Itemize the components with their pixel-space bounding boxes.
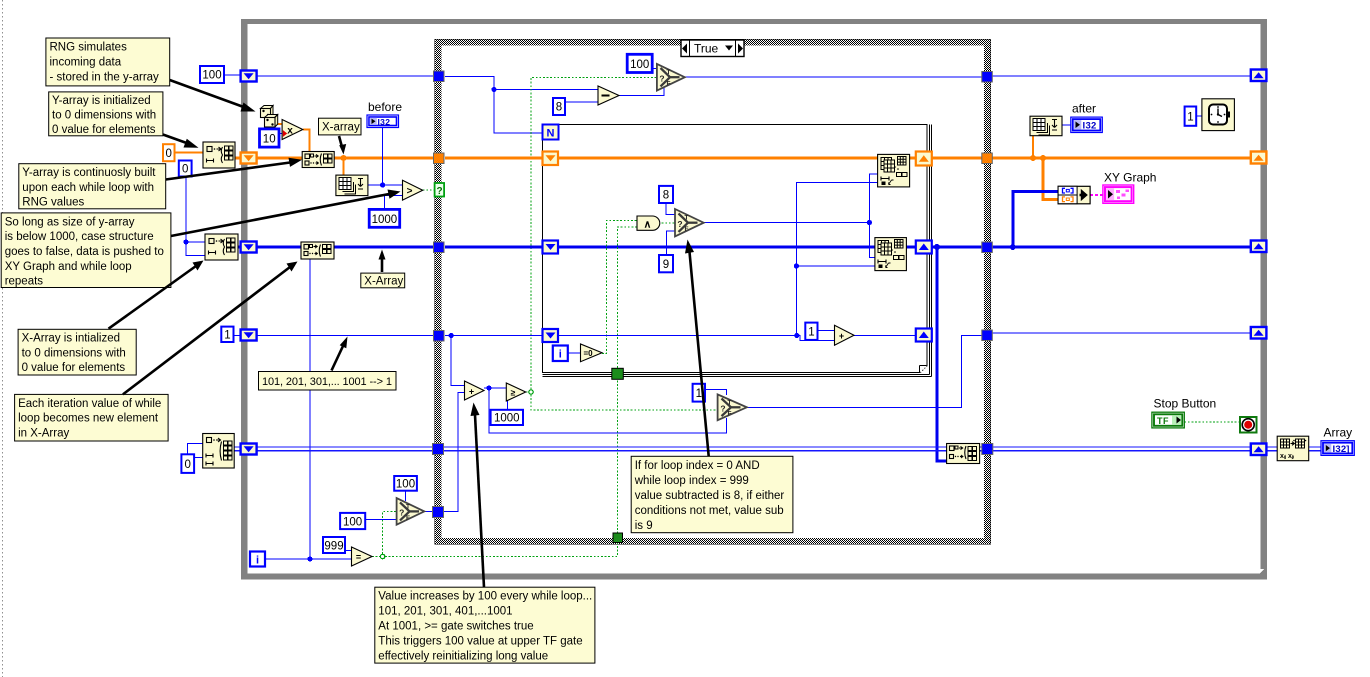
constant 1 (select3 true) (693, 384, 705, 402)
svg-text:is 9: is 9 (635, 520, 653, 532)
arrow from X-Array label up to wire (379, 250, 386, 273)
svg-text:X-Array is intialized: X-Array is intialized (22, 333, 120, 345)
arrow: RNG comment to dice (170, 80, 256, 112)
svg-text:is below 1000, case structure: is below 1000, case structure (5, 231, 154, 243)
wire: select1 output to case tunnel to right shift register (685, 76, 1251, 77)
case structure border (hatched) (435, 40, 991, 545)
node: transpose 2D array (1277, 436, 1309, 461)
svg-text:?: ? (399, 508, 404, 518)
wire: blue 0 to initialize array 2 inputs (183, 177, 205, 256)
wire: select3 output to case tunnel y=335 (747, 333, 1251, 407)
svg-text:upon each while loop with: upon each while loop with (22, 182, 154, 194)
svg-text:before: before (368, 100, 402, 114)
arrow: if-for-loop comment up to select 2 (685, 240, 709, 457)
node: increment add (1 + i) (835, 325, 855, 345)
wire: multiply output down into insert-into-array 1 (303, 130, 310, 152)
svg-text:9: 9 (663, 259, 669, 271)
node: equals (i = 999) (352, 547, 373, 566)
indicator: XY Graph with label (1103, 171, 1157, 204)
wire: orange y-array trunk (235, 136, 1251, 200)
wire: for-loop i to equal-zero to and-gate (green) (568, 221, 637, 354)
node: greater than (403, 180, 423, 200)
comment: So long as size of y-array (1, 213, 171, 288)
svg-text:effectively reinitializing lon: effectively reinitializing long value (378, 651, 548, 663)
for loop right tunnel orange (up arrow) (916, 152, 932, 166)
case right tunnel y=335 (982, 330, 993, 341)
wire: array size 2 to after indicator (1062, 124, 1071, 126)
wire: 8 to select2 true input (666, 203, 676, 215)
svg-text:?: ? (436, 186, 442, 197)
wire: select4 output through case tunnel up to add2 (424, 393, 464, 512)
svg-text:1: 1 (808, 327, 814, 339)
constant 1 (left) (221, 327, 233, 342)
svg-text:T: T (728, 399, 732, 406)
svg-text:X-array: X-array (322, 122, 360, 134)
wire: and output to select2 s input (662, 222, 676, 224)
screen boundary dotted line (2, 0, 4, 677)
case right tunnel orange y=158 (982, 153, 993, 164)
for loop left tunnel y=247 (down arrow) (543, 241, 559, 254)
node: random number dice (261, 106, 278, 128)
shift register left 4 (down arrow) (241, 330, 257, 341)
svg-text:XY Graph: XY Graph (1104, 171, 1156, 185)
wire: orange 0 to initialize array 1 (175, 152, 204, 154)
constant 0 (blue) (179, 161, 192, 177)
svg-text:to 0 dimensions with: to 0 dimensions with (52, 110, 156, 122)
svg-text:100: 100 (202, 70, 221, 82)
svg-text:1000: 1000 (372, 214, 398, 226)
svg-text:≥: ≥ (511, 388, 516, 398)
svg-text:0: 0 (182, 164, 188, 176)
wire: bundle output to XY Graph (pink) (1090, 194, 1103, 196)
wire: 10 to multiply with coercion dot (279, 133, 282, 135)
arrow from 101 label up to wire y=335 (332, 337, 348, 371)
wire: shift register to case tunnel y=76 (257, 75, 436, 77)
svg-text:I32: I32 (378, 117, 391, 127)
wire: 1 to select3 true input (705, 390, 726, 395)
node: select 1 (top, true case 100) (657, 64, 685, 91)
wire: 100 to select1 true input (652, 68, 657, 70)
svg-text:T: T (685, 215, 689, 222)
svg-text:repeats: repeats (5, 276, 44, 288)
node: array size 1 (336, 175, 368, 196)
arrow: so-long comment to greater-than gate (171, 190, 401, 237)
svg-text:=: = (356, 552, 361, 562)
svg-text:value subtracted is 8, if eith: value subtracted is 8, if either (635, 490, 785, 502)
svg-text:If for loop index = 0 AND: If for loop index = 0 AND (635, 460, 760, 472)
wire: greater-than output to case selector tunnel (green) (423, 189, 435, 191)
svg-text:Stop Button: Stop Button (1154, 397, 1217, 411)
node: select 3 (reset to 1) (718, 394, 747, 420)
constant 1 (increment) (805, 323, 817, 340)
svg-text:F: F (667, 81, 671, 88)
svg-text:0: 0 (184, 459, 190, 471)
svg-text:F: F (685, 226, 689, 233)
node: greater or equal (506, 383, 525, 401)
constant 1 (wait) (1185, 107, 1197, 126)
for loop bottom tunnel green (boolean) (612, 368, 624, 379)
shift register left 2 (orange down arrow) (241, 153, 257, 164)
svg-text:>: > (407, 186, 413, 197)
svg-text:TF: TF (1157, 416, 1169, 426)
node: insert into array 1 (302, 152, 334, 168)
wire: add2 output to gte and select3 false input (484, 385, 726, 433)
arrow: Y-array init comment to initialize array 1 (163, 135, 199, 148)
svg-text:True: True (694, 42, 719, 56)
wire: equals output green net to and-gate via tunnels and to select4 (372, 227, 637, 559)
indicator: after (I32) with label (1071, 102, 1103, 133)
while loop border (241, 19, 1267, 580)
svg-text:T: T (406, 503, 410, 510)
node: initialize array 3 (2D) (203, 434, 235, 469)
node: equal to zero (581, 344, 603, 362)
svg-text:101, 201, 301,... 1001 --> 1: 101, 201, 301,... 1001 --> 1 (262, 376, 392, 388)
svg-text:XY Graph and while loop: XY Graph and while loop (5, 261, 132, 273)
wire: 1000 to greater-than lower input (385, 195, 403, 209)
svg-text:Value increases by 100 every w: Value increases by 100 every while loop.… (378, 591, 592, 603)
wire: iteration tap net x=796 to delete nodes (794, 182, 878, 335)
shift register right 3 (up arrow) (1251, 241, 1267, 253)
svg-text:+: + (839, 331, 844, 341)
wire: 100 constant to left shift register (scalar blue) (224, 74, 241, 76)
svg-text:N: N (547, 128, 555, 140)
arrow: each-iteration comment to insert into array 2 (123, 262, 298, 395)
wire: subtract output to select1 false input (619, 88, 664, 96)
svg-text:0 value for elements: 0 value for elements (52, 124, 156, 136)
svg-text:So long as size of y-array: So long as size of y-array (5, 216, 135, 228)
svg-text:?: ? (677, 219, 682, 229)
case left tunnel orange y=158 (434, 153, 445, 164)
svg-text:∧: ∧ (644, 219, 652, 231)
svg-text:100: 100 (630, 59, 649, 71)
constant 100 (select4 false) (340, 513, 365, 529)
for loop count terminal N (543, 125, 559, 140)
node: select 2 (subtract amount 8/9) (675, 209, 704, 236)
comment: Y-array is initialized (49, 92, 163, 136)
wire: 8 to subtract lower input (565, 101, 599, 103)
wire: 9 to select2 false input (667, 231, 676, 255)
arrow: continuosly-built comment to insert into array 1 (166, 158, 302, 180)
svg-text:F: F (728, 411, 732, 418)
for loop right tunnel y=247 (up arrow) (916, 241, 932, 254)
node: and gate (637, 216, 660, 231)
node: insert into array 3 (2D build) (947, 444, 980, 464)
svg-text:?: ? (659, 74, 664, 84)
wire: 1 to wait function (1196, 115, 1202, 117)
case left tunnel select4 y=511 (433, 507, 444, 518)
while loop condition terminal (stop sign) (1240, 417, 1257, 433)
case right tunnel 2D y=449 (982, 444, 993, 455)
node: delete from array 2 (875, 238, 907, 271)
svg-text:Y-array is continuosly built: Y-array is continuosly built (22, 167, 156, 179)
shift register right 1 (up arrow) (1251, 70, 1267, 82)
svg-text:loop becomes new element: loop becomes new element (18, 413, 159, 425)
svg-text:100: 100 (343, 516, 362, 528)
indicator: before (I32) with label (367, 100, 402, 128)
wire: inside case top scalar net to N and subtract (445, 77, 599, 134)
wire: 2D array double line net (234, 447, 1321, 451)
svg-text:Y-array is initialized: Y-array is initialized (52, 95, 151, 107)
comment: Y-array is continuosly built (19, 164, 166, 209)
for loop right tunnel y=335 (up arrow) (916, 329, 932, 342)
svg-text:RNG simulates: RNG simulates (50, 42, 128, 54)
svg-text:RNG values: RNG values (22, 197, 84, 209)
wire: 999 to equals (345, 550, 352, 552)
constant 100 (select4 true) (394, 476, 417, 491)
for loop left tunnel y=335 (down arrow) (543, 329, 559, 342)
node: subtract (598, 86, 619, 105)
comment: Each iteration value of while (15, 394, 169, 441)
node: select 4 (reset 100) (397, 498, 425, 525)
case bottom tunnel green (boolean) (613, 533, 623, 543)
wire: x-array thick blue trunk y=247 (238, 192, 1251, 461)
shift register left 1 (down arrow) (241, 71, 257, 82)
constant 0 (orange DBL) (163, 144, 175, 161)
svg-text:0: 0 (165, 148, 171, 160)
indicator: Array (I32 2D) with label (1321, 426, 1354, 456)
label: X-Array (below trunk) (361, 273, 405, 288)
comment: X-Array is intialized (18, 329, 136, 375)
svg-text:T: T (667, 69, 671, 76)
shift register left 3 (down arrow) (241, 242, 257, 253)
shift register right 2 (orange up arrow) (1251, 152, 1267, 164)
node: array size 2 (1030, 116, 1062, 136)
case selector tunnel "?" (435, 183, 445, 197)
shift register left 5 (down arrow) (241, 444, 257, 455)
control: Stop Button (TF) with label (1152, 397, 1216, 428)
wire: 100 to select4 false input (365, 519, 396, 521)
svg-text:x: x (287, 126, 293, 137)
wire: 0 to initialize array 3 inputs (188, 444, 203, 458)
svg-text:in X-Array: in X-Array (18, 427, 69, 439)
svg-text:=0: =0 (583, 349, 593, 358)
constant 8 (select2 true) (659, 186, 673, 203)
svg-text:8: 8 (556, 102, 562, 114)
svg-text:Each iteration value of while: Each iteration value of while (18, 398, 161, 410)
constant 1000 (y size limit) (369, 209, 400, 227)
wire: array size 1 to greater-than, branch to before indicator (368, 128, 403, 188)
svg-text:X-Array: X-Array (364, 276, 403, 288)
svg-text:100: 100 (396, 479, 415, 491)
svg-text:while loop index = 999: while loop index = 999 (634, 475, 749, 487)
constant 100 (top left) (200, 66, 224, 83)
svg-text:I32: I32 (1083, 121, 1097, 132)
svg-text:?: ? (720, 404, 725, 414)
svg-text:8: 8 (663, 190, 669, 202)
wire: dice to multiply (orange scalar) (278, 123, 282, 125)
node: bundle cluster for XY graph (1058, 186, 1090, 204)
for loop border (543, 125, 932, 377)
case left tunnel y=247 (434, 242, 445, 253)
svg-text:10: 10 (263, 134, 276, 146)
comment: If for loop index (631, 456, 793, 532)
svg-text:i: i (256, 555, 259, 567)
svg-text:incoming data: incoming data (50, 57, 122, 69)
case selector label "True" (681, 40, 744, 57)
case left tunnel 2D y=449 (433, 444, 444, 455)
while loop iteration terminal i (250, 552, 265, 567)
arrow: X-Array init comment to initialize array 2 (109, 261, 204, 329)
svg-text:+: + (469, 386, 474, 396)
svg-text:1: 1 (1187, 112, 1193, 124)
for loop left tunnel orange (down arrow) (543, 152, 559, 166)
node: initialize array 1 (203, 142, 235, 168)
node: insert into array 2 (301, 242, 334, 259)
constant 999 (323, 537, 345, 553)
constant 8 (subtract) (553, 98, 565, 115)
node: multiply (282, 120, 303, 140)
svg-text:- stored in the y-array: - stored in the y-array (50, 72, 160, 84)
arrow from X-array label to orange wire (339, 136, 346, 155)
svg-text:xᵢⱼ xⱼᵢ: xᵢⱼ xⱼᵢ (1280, 453, 1294, 460)
constant 9 (select2 false) (659, 255, 673, 272)
svg-text:to 0 dimensions with: to 0 dimensions with (22, 347, 126, 359)
svg-text:This triggers 100 value at upp: This triggers 100 value at upper TF gate (378, 636, 582, 648)
constant 10 (260, 129, 280, 147)
wire: insert2 index input from i terminal (265, 260, 352, 562)
case left tunnel y=76 (linked blue square) (434, 71, 445, 82)
for loop iteration terminal i (553, 346, 568, 362)
constant 0 (2D init) (181, 454, 194, 473)
node: add 2 (long value + 1) (465, 381, 485, 400)
case right tunnel y=76 (982, 72, 993, 83)
shift register right 4 (up arrow) (1251, 327, 1267, 339)
node: initialize array 2 (205, 234, 238, 260)
wire: 100 to select4 true input (405, 491, 407, 501)
svg-text:1000: 1000 (494, 413, 520, 425)
svg-text:1: 1 (696, 388, 702, 400)
wire: scalar 1 row y=335.5 through loop and for loop (234, 331, 917, 386)
wire: stop button to loop condition terminal (green dotted) (1184, 421, 1240, 423)
svg-text:1: 1 (224, 330, 230, 342)
node: wait ms function (1202, 99, 1235, 131)
svg-text:Array: Array (1324, 426, 1353, 440)
svg-text:101, 201, 301, 401,...1001: 101, 201, 301, 401,...1001 (378, 606, 512, 618)
wire: 1000 to gte lower input (507, 398, 509, 410)
wire: select2 output to delete-from-array nodes (704, 174, 878, 257)
constant 1000 (gte) (491, 410, 523, 425)
svg-text:conditions not met, value sub: conditions not met, value sub (635, 505, 784, 517)
svg-text:999: 999 (324, 540, 343, 552)
case right tunnel y=247 (982, 242, 993, 253)
svg-text:I32]: I32] (1333, 444, 1350, 455)
svg-text:At 1001, >= gate switches true: At 1001, >= gate switches true (378, 621, 533, 633)
node: delete from array 1 (878, 154, 910, 187)
constant 100 (case true, select1) (627, 54, 652, 72)
svg-text:F: F (406, 515, 410, 522)
comment: Value increases by 100 (375, 587, 595, 663)
case left tunnel y=335 (434, 331, 445, 342)
arrow: value-increases comment up to add2 gate (471, 403, 485, 588)
svg-text:goes to false, data is pushed: goes to false, data is pushed to (5, 246, 164, 258)
wire: green case selector net (>= to selects) (526, 78, 718, 411)
svg-text:after: after (1072, 102, 1096, 116)
label: X-array (free label near orange wire) (319, 118, 362, 135)
shift register right 5 (up arrow) (1251, 444, 1267, 456)
svg-text:i: i (559, 349, 562, 361)
svg-text:0 value for elements: 0 value for elements (22, 362, 126, 374)
comment: RNG simulates incoming data (46, 38, 170, 86)
